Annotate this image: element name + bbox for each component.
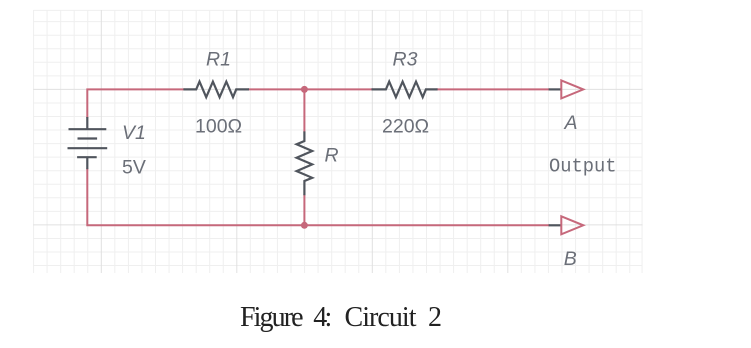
svg-text:R3: R3	[393, 49, 418, 71]
svg-text:A: A	[564, 112, 578, 134]
svg-text:Figure4:Circuit2: Figure4:Circuit2	[240, 302, 442, 333]
svg-text:100Ω: 100Ω	[195, 116, 242, 138]
svg-text:Output: Output	[549, 156, 617, 178]
svg-text:R: R	[325, 145, 339, 167]
svg-text:5V: 5V	[122, 157, 146, 179]
svg-text:V1: V1	[122, 122, 146, 144]
svg-text:220Ω: 220Ω	[382, 116, 429, 138]
svg-text:B: B	[564, 248, 577, 270]
svg-text:R1: R1	[206, 49, 231, 71]
